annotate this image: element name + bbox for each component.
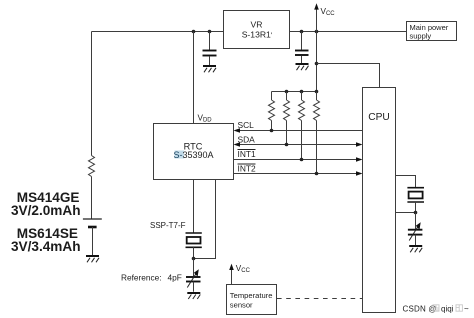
- IC: RTC S-35390A: [154, 124, 234, 180]
- svg-text:3V/2.0mAh: 3V/2.0mAh: [11, 203, 81, 218]
- resistor: battery series: [89, 156, 95, 177]
- wire: VR output rail to Main power supply: [290, 31, 407, 33]
- power flag Vcc (top): [314, 3, 319, 31]
- label INT1 (with overline): [238, 149, 256, 159]
- power flag Vcc (temperature sensor): [229, 264, 234, 285]
- battery: backup cell (MS414GE / MS614SE): [83, 219, 102, 227]
- junction: bus / R2: [285, 90, 289, 94]
- resistor: SCL pull-up: [269, 92, 275, 131]
- wire: VDD feed to RTC: [193, 32, 195, 124]
- svg-text:SSP-T7-F: SSP-T7-F: [150, 221, 186, 230]
- resistor: INT1 pull-up: [299, 92, 305, 160]
- ground: VR output capacitor: [296, 64, 309, 70]
- junction: VR input capacitor: [208, 30, 212, 34]
- wire: SDA net: [238, 144, 358, 146]
- trimmer capacitor: CPU oscillator: [408, 222, 423, 245]
- svg-text:sensor: sensor: [230, 301, 253, 310]
- box: Main power supply: [407, 22, 457, 41]
- label INT2 (with overline): [238, 164, 256, 174]
- wire: resistor to battery: [91, 177, 93, 219]
- trimmer capacitor: reference 4pF: [186, 269, 201, 291]
- label MS414GE 3V/2.0mAh: [11, 190, 81, 218]
- IC: CPU: [363, 88, 396, 313]
- wire: battery to ground: [92, 227, 94, 255]
- wire: SCL net: [238, 130, 363, 132]
- capacitor: VR input bypass: [203, 32, 217, 66]
- junction: crystal / trimmer node: [192, 257, 196, 261]
- junction: CPU crystal / trimmer node: [414, 211, 418, 215]
- arrowhead: SDA into RTC: [234, 142, 241, 146]
- wire: CPU power feed: [317, 64, 380, 88]
- label Reference: 4pF: [121, 272, 182, 282]
- wire: node to trimmer: [193, 259, 195, 277]
- wire: battery branch vertical: [91, 32, 93, 156]
- svg-text:supply: supply: [410, 31, 432, 40]
- arrowhead: SCL into RTC: [234, 128, 241, 132]
- svg-text:CSDN @: CSDN @: [403, 305, 437, 314]
- crystal X2 (CPU oscillator): [407, 188, 424, 213]
- junction: INT2 / R4: [315, 172, 319, 176]
- junction: bus / R3: [300, 90, 304, 94]
- resistor: SDA pull-up: [284, 92, 290, 145]
- svg-text:qiqi: qiqi: [441, 305, 454, 314]
- arrowhead: SDA into CPU: [356, 142, 363, 146]
- junction: VR output capacitor: [300, 30, 304, 34]
- label MS614SE 3V/3.4mAh: [11, 226, 81, 254]
- box: Temperature sensor: [227, 285, 277, 315]
- svg-text:Temperature: Temperature: [230, 291, 273, 300]
- resistor: INT2 pull-up: [314, 92, 320, 174]
- svg-text:S-35390A: S-35390A: [173, 150, 213, 160]
- junction: SCL / R1: [270, 129, 274, 133]
- junction: CPU power branch: [315, 62, 319, 66]
- svg-text:Reference:: Reference:: [121, 272, 162, 282]
- watermark CSDN: [403, 305, 470, 314]
- ground: battery: [86, 256, 99, 262]
- svg-text:~: ~: [464, 305, 469, 314]
- junction: SDA / R2: [285, 143, 289, 147]
- junction: INT1 / R3: [300, 158, 304, 162]
- wire: pull-up bus: [272, 91, 317, 93]
- wire: Vcc rail from battery branch to VR input: [92, 31, 224, 33]
- arrowhead: INT1 into CPU: [356, 157, 363, 161]
- wire: Vcc down to pull-up bus: [316, 32, 318, 92]
- wire: RTC XOUT pin down and across: [194, 180, 216, 259]
- svg-text:VR: VR: [251, 20, 263, 30]
- ground: VR input capacitor: [203, 66, 216, 72]
- junction: VDD branch on input rail: [192, 30, 196, 34]
- wire: temperature sensor to CPU (dashed): [277, 298, 363, 300]
- wire: CPU OSC2 to crystal node: [396, 212, 416, 214]
- crystal X1 SSP-T7-F: [186, 233, 202, 259]
- svg-text:INT1: INT1: [238, 149, 256, 159]
- svg-text:INT2: INT2: [238, 164, 256, 174]
- ground: trimmer (left): [187, 293, 200, 299]
- svg-text:4pF: 4pF: [168, 272, 182, 282]
- ground: CPU trimmer: [409, 246, 422, 252]
- junction: Vcc branch to CPU and pull-ups: [315, 30, 319, 34]
- voltage regulator VR S-13R1: [224, 11, 290, 49]
- svg-text:SDA: SDA: [238, 134, 256, 144]
- svg-text:CPU: CPU: [368, 112, 390, 123]
- arrowhead: INT2 into CPU: [356, 171, 363, 175]
- wire: INT1 net: [234, 159, 358, 161]
- capacitor: VR output bypass: [295, 32, 309, 64]
- wire: node to CPU trimmer: [415, 213, 417, 230]
- svg-text:S-13R1': S-13R1': [242, 29, 273, 39]
- svg-text:3V/3.4mAh: 3V/3.4mAh: [11, 239, 81, 254]
- wire: CPU OSC1 to crystal: [396, 176, 416, 188]
- wire: RTC XIN pin down: [193, 180, 195, 233]
- wire: INT2 net: [234, 173, 358, 175]
- svg-text:SCL: SCL: [238, 120, 255, 130]
- junction: bus / R4: [315, 90, 319, 94]
